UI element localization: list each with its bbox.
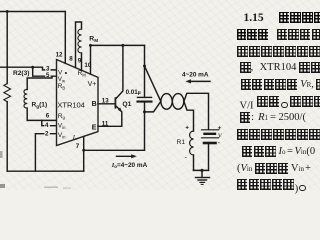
twisted pair lens 2 — [172, 94, 184, 110]
transistor Q1 emitter with arrow — [98, 106, 122, 126]
svg-text:B: B — [92, 101, 97, 108]
pin 9 wire — [81, 53, 83, 70]
scan speck — [63, 188, 71, 189]
svg-text:12: 12 — [56, 51, 63, 58]
wire: Ra(1) bottom to pin 6 — [27, 108, 56, 120]
svg-text:+: + — [218, 125, 222, 132]
svg-text:V+: V+ — [88, 81, 97, 88]
arrow loop current left — [189, 80, 211, 82]
pin 4 — [44, 122, 49, 127]
svg-text:Q1: Q1 — [122, 101, 131, 108]
svg-text:Rg(1): Rg(1) — [32, 102, 48, 109]
wire: to pin 3 — [33, 67, 57, 70]
svg-text:2: 2 — [45, 131, 49, 138]
wire: twisted pair bottom lead-in — [145, 101, 161, 112]
svg-text:13: 13 — [102, 97, 109, 104]
wire: branch to pin 4 — [42, 120, 57, 125]
battery V plates — [202, 129, 219, 131]
wire: capacitor bottom — [144, 102, 146, 112]
svg-text:4~20 mA: 4~20 mA — [182, 71, 209, 78]
wire: bottom right rail — [194, 169, 209, 171]
wire: top supply rail — [0, 11, 65, 13]
wire: bridge mid horizontal from left edge — [0, 66, 33, 68]
wire: top net horizontal — [91, 44, 145, 46]
node dot collector branch — [121, 44, 124, 47]
wire: base from pin 13 — [98, 103, 115, 105]
resistor R2(3) zigzag on left vertical — [4, 84, 11, 102]
wire: left bridge vertical (upper) — [6, 12, 8, 84]
resistor R1 coil — [190, 131, 194, 155]
pin 3 — [45, 65, 50, 71]
wire: down to capacitor — [144, 45, 146, 97]
scan speck — [44, 187, 58, 188]
pin 6 — [45, 112, 50, 117]
wire: cap node down to output line — [144, 112, 146, 150]
svg-text:10: 10 — [84, 62, 91, 69]
svg-text:R2(3): R2(3) — [13, 70, 30, 77]
svg-text:RM: RM — [89, 36, 98, 43]
svg-text:9: 9 — [78, 57, 82, 64]
pin 5 — [45, 72, 50, 77]
node: top-left junction dot — [6, 10, 9, 13]
wire: pin 2 to bottom rail — [35, 134, 56, 172]
svg-text:XTR104: XTR104 — [57, 101, 85, 110]
svg-text:0.01μ: 0.01μ — [126, 89, 141, 96]
pin 7 wire down — [83, 137, 85, 172]
scan speck — [0, 151, 3, 158]
wire: output current line — [84, 149, 145, 151]
svg-text:6: 6 — [46, 113, 50, 120]
node dot ground junction — [200, 169, 203, 172]
wire: to pin 5 — [33, 67, 57, 76]
wire: twisted pair top lead-in diagonal — [145, 66, 161, 101]
wire: battery bottom — [208, 144, 210, 170]
pin 12 wire — [64, 12, 66, 64]
wire: Ra(1) branch top bracket — [27, 76, 52, 89]
wire: bottom rail to pin7 junction — [7, 170, 84, 172]
arrow output current — [117, 155, 134, 157]
node dot twist branch — [143, 65, 146, 68]
svg-text:R1: R1 — [177, 139, 186, 146]
node dot on pin7 wire — [82, 149, 85, 152]
resistor RM coil — [78, 29, 82, 53]
scan speck — [0, 184, 5, 188]
capacitor C1 0.01u plates — [138, 96, 152, 98]
svg-text:E: E — [92, 124, 97, 131]
svg-text:11: 11 — [102, 120, 109, 127]
op-amp U1 XTR104 body — [57, 60, 99, 146]
twisted pair lens 1 — [161, 94, 173, 110]
pin 10 wire — [90, 45, 92, 74]
wire: pair top exit to battery — [184, 93, 209, 129]
svg-text:7: 7 — [76, 143, 80, 150]
ground — [201, 170, 203, 177]
wire: R1 bottom — [193, 155, 195, 170]
svg-text:Io=4~20 mA: Io=4~20 mA — [111, 162, 148, 169]
node: bridge output dot — [31, 66, 34, 69]
transistor Q1 base bar — [115, 97, 117, 108]
svg-text:-: - — [185, 154, 188, 161]
wire: collector branch down — [116, 45, 123, 98]
svg-text:V: V — [218, 133, 223, 140]
wire: pair bottom exit to R1 — [184, 101, 194, 131]
node dot below capacitor — [143, 110, 146, 113]
pin 8 wire and bracket — [76, 22, 82, 68]
svg-text:4: 4 — [45, 122, 49, 129]
resistor Ra(1) coil — [24, 89, 27, 108]
wire: left bridge vertical (lower) — [6, 102, 8, 172]
svg-text:+: + — [185, 125, 189, 132]
node dot at RM output — [89, 44, 92, 47]
pin 2 — [44, 130, 49, 135]
svg-text:8: 8 — [69, 55, 73, 62]
svg-text:-: - — [218, 140, 221, 147]
